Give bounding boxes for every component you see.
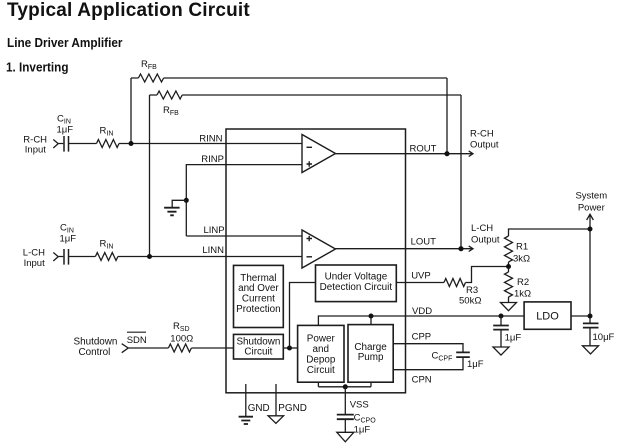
node: RINP/LINP ground junction [184,198,189,203]
svg-text:VDD: VDD [412,306,432,317]
wire RINP to ground node [186,165,302,236]
svg-text:RINN: RINN [199,133,222,144]
svg-text:Depop: Depop [306,354,336,365]
wire RIN to LINN pin [118,256,302,258]
ground triangle below CCPO [337,432,354,442]
svg-text:SDN: SDN [127,335,147,346]
resistor R3 [444,279,465,287]
resistor RIN (R-CH) [97,140,120,148]
ground (earth) near RINP [164,208,180,216]
svg-text:50kΩ: 50kΩ [459,295,481,306]
svg-text:RINP: RINP [201,154,224,165]
svg-text:CPN: CPN [412,375,432,386]
block: Thermal and Over Current Protection [234,265,284,327]
svg-text:Current: Current [242,294,275,305]
svg-text:Thermal: Thermal [240,273,276,284]
svg-text:VSS: VSS [350,400,369,411]
wire to signal ground [172,200,186,207]
block: Shutdown Circuit [234,334,284,359]
wire RFB1 left vertical to R-CH input node [130,78,132,144]
IC main box U1 [226,129,406,393]
wire RFB1 right vertical down to ROUT [446,78,448,154]
arrow R-CH output [469,151,473,157]
wire VDD rail [318,316,524,325]
svg-text:1μF: 1μF [60,234,77,245]
node: VDD/charge-pump junction [369,314,374,319]
node: VSS junction [343,384,348,389]
resistor R2 [505,272,513,297]
input arrow R-CH [53,140,58,149]
svg-text:1μF: 1μF [354,425,371,436]
ground (earth) GND [239,417,253,424]
wire R1 to junction [508,262,510,272]
svg-text:Input: Input [25,145,46,156]
svg-text:R1: R1 [516,241,528,252]
wire ROUT output [336,153,473,155]
op-amp U1A (R channel) [302,135,336,173]
resistor R1 [505,236,513,262]
svg-text:Circuit: Circuit [244,347,272,358]
svg-text:L-CH: L-CH [471,223,493,234]
svg-text:10μF: 10μF [593,332,615,343]
block: Under Voltage Detection Circuit [316,265,397,302]
capacitor 10uF [583,323,599,345]
svg-text:LINN: LINN [202,245,224,256]
wire R3 to R1/R2 junction [466,267,509,283]
svg-text:Circuit: Circuit [307,365,335,376]
wire GND pin [245,384,247,416]
arrow up System Power [587,214,594,220]
ground triangle below VDD cap [493,347,509,355]
svg-text:1μF: 1μF [505,333,522,344]
block: Power and Depop Circuit [298,325,344,382]
svg-text:PGND: PGND [278,403,307,414]
wire CPN [393,358,463,370]
capacitor CCPO [337,415,354,433]
op-amp U1B (L channel) [302,230,336,268]
svg-text:100Ω: 100Ω [170,334,193,345]
ground triangle below 10uF [583,346,599,354]
wire RIN to RINN pin [119,143,302,145]
capacitor CIN (R-CH) [59,136,97,152]
svg-text:Output: Output [470,139,499,150]
svg-text:Charge: Charge [354,342,387,353]
node: shutdown junction [287,346,292,351]
svg-text:UVP: UVP [411,271,431,282]
svg-text:Output: Output [471,234,500,245]
svg-text:R-CH: R-CH [470,128,494,139]
svg-text:ROUT: ROUT [410,143,437,154]
svg-text:1kΩ: 1kΩ [514,288,531,299]
svg-text:CPP: CPP [412,331,432,342]
wire RSD to shutdown pin [191,347,226,349]
wire L-CH output rail to R1 and System Power [509,229,591,236]
node: R1/R2/R3 junction [506,264,511,269]
wire R2 to ground [508,297,510,302]
resistor RIN (L-CH) [95,253,118,261]
svg-text:and: and [313,344,329,355]
node: LOUT/RFB2 junction [458,246,463,251]
op-amp U1B minus sign [307,256,313,258]
capacitor CIN (L-CH) [59,249,96,265]
node: SysPower/R1 junction [588,227,593,232]
wire CPP [393,344,463,352]
svg-text:Detection Circuit: Detection Circuit [320,282,393,293]
wire LDO output to System Power rail [571,315,590,317]
capacitor 1uF at VDD [493,316,509,347]
wire RFB2 left vertical to L-CH input node [149,95,151,257]
svg-text:1μF: 1μF [467,359,484,370]
svg-text:System: System [575,190,607,201]
op-amp U1B plus sign [307,236,313,242]
svg-text:Typical Application Circuit: Typical Application Circuit [7,0,250,21]
svg-text:Line Driver Amplifier: Line Driver Amplifier [7,35,123,50]
svg-text:Input: Input [24,258,45,269]
node: RFB1/RIN junction [129,141,134,146]
wire SDN to RSD [128,347,168,349]
input arrow L-CH [53,253,58,262]
wire shutdown junction up to UVD block [290,283,316,349]
wire RFB2 right vertical down to LOUT [460,95,462,249]
wire Power/ChargePump bottom link [318,382,371,387]
block: Charge Pump [348,325,393,383]
svg-text:LDO: LDO [536,310,559,322]
wire VDD stub to Charge Pump [370,316,372,325]
ground triangle below R2 [501,303,517,311]
block: LDO [524,302,571,329]
wire shutdown pin to Shutdown Circuit [226,347,234,349]
wire VSS down to CCPO [344,387,346,414]
op-amp U1A plus sign [307,161,313,167]
resistor RFB2 (feedback, L-channel) [150,91,462,99]
node: VDD/1uF cap junction [499,314,504,319]
svg-text:Shutdown: Shutdown [236,336,280,347]
svg-text:LOUT: LOUT [411,236,437,247]
svg-text:3kΩ: 3kΩ [513,253,530,264]
svg-text:Protection: Protection [236,304,280,315]
resistor RSD [168,344,191,352]
resistor RFB1 (top feedback, R-channel) [131,74,447,82]
wire Shutdown Circuit to Power and Depop [283,347,297,349]
svg-text:Control: Control [79,347,111,358]
svg-text:Pump: Pump [358,352,384,363]
svg-text:and Over: and Over [238,283,279,294]
svg-text:Under Voltage: Under Voltage [325,272,388,283]
svg-text:1μF: 1μF [57,125,74,136]
capacitor CCPF [456,352,470,357]
op-amp U1A minus sign [307,146,313,148]
arrow L-CH output [469,246,473,252]
svg-text:Power: Power [578,203,605,214]
svg-text:LINP: LINP [203,225,224,236]
wire LOUT output [336,248,473,250]
wire PGND pin [275,384,277,416]
wire LINP from ground node [186,235,302,237]
input arrow shutdown [122,344,129,353]
wire UVP from UVD block to R3 [396,282,444,284]
node: LDO out/10uF junction [588,314,593,319]
node: ROUT/RFB1 junction [444,151,449,156]
wire System Power rail [589,214,591,323]
svg-text:GND: GND [248,403,270,414]
ground triangle PGND [268,416,284,424]
svg-text:Power: Power [307,334,336,345]
svg-text:R2: R2 [517,277,529,288]
node: RFB2/RIN junction [147,254,152,259]
svg-text:1. Inverting: 1. Inverting [6,60,69,75]
